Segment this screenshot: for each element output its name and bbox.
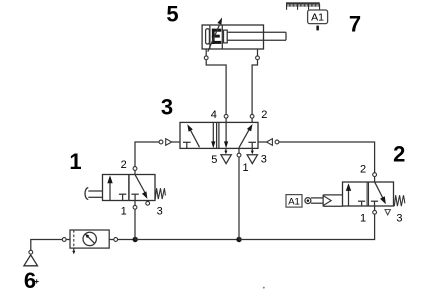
svg-text:5: 5 xyxy=(211,154,217,166)
svg-text:1: 1 xyxy=(121,205,127,217)
wire bus junction1 to junction2 xyxy=(135,239,239,241)
valve 2 port 2 connector xyxy=(373,173,377,182)
valve 1 3/2-way pushbutton valve body xyxy=(103,175,156,201)
cylinder adjustment arrow xyxy=(208,17,222,51)
distance rule position marker xyxy=(316,26,319,31)
wire cylinder right port to valve 3 port 2 xyxy=(252,60,257,115)
valve 3 port 2 connector xyxy=(250,114,254,122)
valve 2 port 1 connector xyxy=(373,206,377,214)
valve 3 left pilot symbol xyxy=(159,139,180,146)
valve 3 left position blocked port T xyxy=(183,142,191,148)
wire service unit to junction xyxy=(118,239,136,241)
valve 1 pushbutton actuator xyxy=(85,188,102,200)
wire cylinder left port to valve 3 port 4 xyxy=(206,60,226,115)
valve 3 5/2-way double pilot valve body xyxy=(180,122,258,148)
valve 2 exhaust port 3 triangle xyxy=(385,210,390,215)
svg-text:+: + xyxy=(34,277,39,286)
air service unit (filter/regulator) xyxy=(62,230,117,254)
distance rule scale xyxy=(286,2,320,10)
valve 3 port 3 exhaust xyxy=(247,148,257,163)
valve 1 exhaust port 3 outlet xyxy=(146,201,150,205)
svg-text:1: 1 xyxy=(243,162,249,174)
valve 2 left position flow arrow xyxy=(346,183,351,205)
compressed air source 6 xyxy=(24,250,38,265)
cylinder right port connector xyxy=(256,49,260,60)
valve 1 left position blocked port T xyxy=(119,194,126,200)
valve 3 port 1 connector xyxy=(237,148,241,239)
cylinder left port connector xyxy=(204,49,208,60)
valve 3 left position 1-4 arrow xyxy=(187,124,199,147)
valve 3 port 5 exhaust xyxy=(221,148,231,163)
wire bus junction2 to valve 2 riser xyxy=(239,214,375,239)
valve 3 right position 1-2 arrow xyxy=(239,124,253,148)
valve 3 port 4 connector xyxy=(224,114,228,122)
svg-text:2: 2 xyxy=(121,159,127,171)
svg-text:3: 3 xyxy=(161,95,173,120)
svg-text:3: 3 xyxy=(261,154,267,166)
valve 2 right position 2-3 arrow xyxy=(375,182,386,204)
wire valve 1 port 2 to valve 3 left pilot xyxy=(135,142,159,167)
junction node at valve 3 port 1 xyxy=(236,237,241,242)
valve 1 left position flow arrow xyxy=(107,175,112,200)
wire valve 3 right pilot to valve 2 port 2 xyxy=(279,142,375,173)
svg-text:1: 1 xyxy=(69,149,81,174)
svg-text:3: 3 xyxy=(157,205,163,217)
svg-text:2: 2 xyxy=(261,109,267,121)
svg-text:3: 3 xyxy=(396,212,402,224)
svg-text:A1: A1 xyxy=(288,196,300,207)
valve 1 return spring xyxy=(155,188,165,199)
svg-text:2: 2 xyxy=(360,164,366,176)
valve 2 roller actuator xyxy=(305,195,343,206)
valve 3 right pilot symbol xyxy=(258,139,279,146)
valve 2 return spring xyxy=(394,195,405,206)
cylinder cushion bracket xyxy=(206,29,210,44)
valve 2 right position blocked port T xyxy=(371,201,378,206)
valve 2 actuator label A1 box xyxy=(286,195,302,208)
cylinder piston xyxy=(210,25,222,49)
valve 1 port 2 connector xyxy=(133,167,137,175)
wire source to service unit xyxy=(31,240,62,251)
valve 2 3/2-way valve body xyxy=(343,182,394,206)
valve 3 left position 2-3 down arrow xyxy=(211,122,215,148)
valve 1 right position 2-3 arrow xyxy=(135,175,147,199)
svg-text:7: 7 xyxy=(349,12,361,37)
svg-text:5: 5 xyxy=(166,2,178,27)
valve 1 port 1 connector xyxy=(133,201,137,240)
svg-text:A1: A1 xyxy=(311,12,324,24)
svg-text:4: 4 xyxy=(211,109,217,121)
svg-text:1: 1 xyxy=(360,212,366,224)
valve 1 right position blocked port T xyxy=(131,194,138,200)
valve 2 left position blocked port T xyxy=(358,201,365,206)
valve 3 right position 4-5 down arrow xyxy=(224,122,228,148)
stray mark xyxy=(263,287,265,289)
double-acting cylinder 5 body xyxy=(202,25,263,49)
svg-text:2: 2 xyxy=(393,142,405,167)
junction node at valve 1 supply xyxy=(133,237,138,242)
cylinder piston rod xyxy=(224,30,287,43)
distance rule label A1 box xyxy=(308,10,328,24)
valve 3 right position blocked port T xyxy=(248,142,256,148)
